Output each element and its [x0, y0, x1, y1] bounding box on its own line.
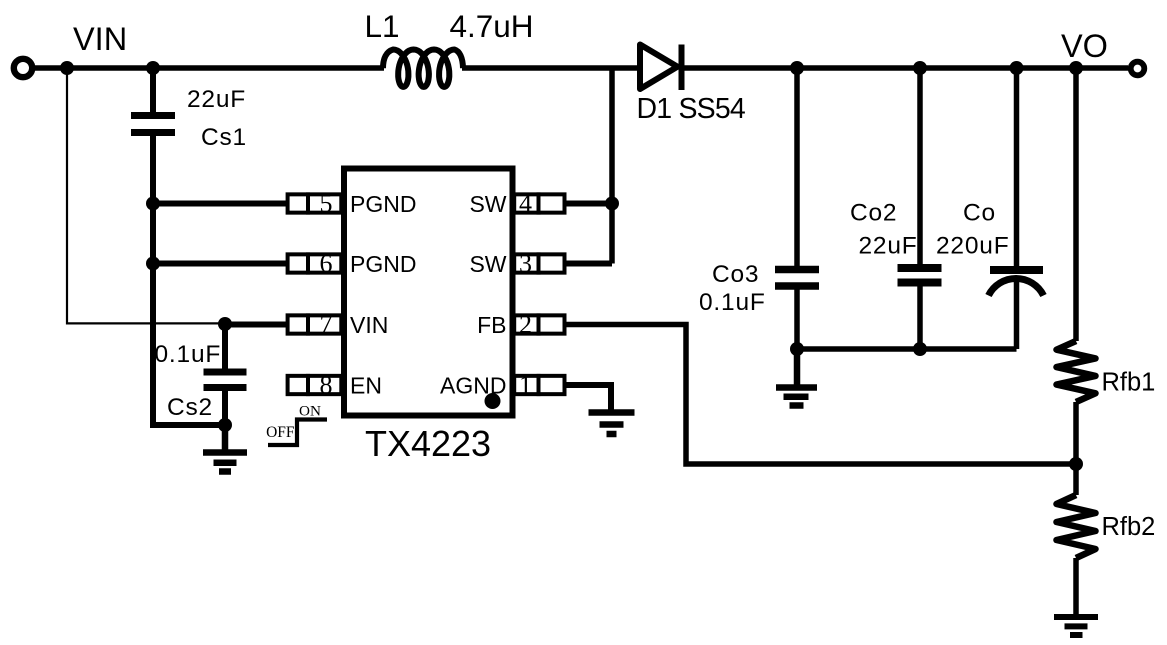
pin box 3	[514, 252, 564, 274]
ground below Rfb2	[1054, 617, 1098, 635]
wire top rail right (D1 to VO)	[684, 65, 1128, 71]
pin box 1	[514, 374, 564, 396]
svg-text:220uF: 220uF	[936, 233, 1009, 260]
pin1 marker dot	[485, 393, 501, 409]
junction SW node	[605, 197, 619, 211]
wire output ground rail	[797, 346, 1017, 352]
svg-text:4: 4	[519, 189, 532, 218]
svg-text:0.1uF: 0.1uF	[155, 341, 222, 368]
junction VO node	[1069, 61, 1083, 75]
svg-text:Co: Co	[963, 200, 996, 227]
wire Rfb1 to FB node	[1073, 402, 1079, 464]
pin box 7	[288, 313, 342, 335]
junction Cs1 top	[146, 61, 160, 75]
svg-text:Cs1: Cs1	[201, 124, 247, 151]
svg-text:Rfb1: Rfb1	[1102, 369, 1156, 397]
wire FB node to Rfb2	[1073, 464, 1079, 495]
wire VIN sense (thin) to pin7	[67, 68, 225, 323]
svg-text:OFF: OFF	[266, 424, 295, 441]
svg-text:SW: SW	[469, 251, 506, 277]
svg-text:4.7uH: 4.7uH	[450, 8, 534, 44]
capacitor Cs1	[131, 116, 175, 133]
wire SW pin4 to node	[567, 201, 613, 207]
resistor Rfb1	[1057, 341, 1096, 402]
junction pin5 branch	[146, 197, 160, 211]
wire SW node down from rail	[609, 68, 615, 264]
svg-text:TX4223: TX4223	[365, 423, 491, 464]
wire SW pin3 to node	[567, 261, 613, 267]
svg-text:0.1uF: 0.1uF	[699, 289, 766, 316]
ground below Cs2	[203, 425, 247, 472]
wire top rail left (VIN to L1)	[31, 65, 384, 71]
diode D1 cathode bar	[679, 45, 685, 91]
pin box 5	[288, 192, 342, 214]
svg-text:6: 6	[320, 249, 333, 278]
junction Co top	[1010, 61, 1024, 75]
capacitor Co2 top lead	[917, 68, 923, 264]
svg-text:VO: VO	[1061, 28, 1108, 64]
capacitor Co curved plate	[989, 278, 1044, 295]
wire VO to Rfb1	[1073, 68, 1079, 341]
junction FB node	[1069, 457, 1083, 471]
svg-text:VIN: VIN	[73, 21, 127, 57]
enable step waveform	[268, 420, 327, 446]
wire Rfb2 to ground	[1073, 558, 1079, 614]
svg-text:PGND: PGND	[350, 251, 416, 277]
svg-text:PGND: PGND	[350, 191, 416, 217]
node VO terminal	[1131, 62, 1145, 76]
svg-text:1: 1	[519, 371, 532, 400]
svg-text:3: 3	[519, 249, 532, 278]
node VIN terminal	[14, 59, 32, 77]
junction Co2 bottom	[913, 342, 927, 356]
capacitor Co top lead	[1014, 68, 1020, 270]
svg-text:7: 7	[320, 310, 333, 339]
ground AGND	[589, 413, 635, 435]
svg-text:22uF: 22uF	[859, 233, 918, 260]
svg-text:VIN: VIN	[350, 312, 388, 338]
svg-text:Rfb2: Rfb2	[1102, 513, 1156, 541]
svg-text:D1 SS54: D1 SS54	[637, 93, 746, 125]
wire AGND pin1 to ground	[567, 385, 612, 410]
diode D1	[640, 45, 678, 90]
wire to pin 6	[153, 261, 288, 267]
wire to pin 7	[225, 322, 288, 328]
svg-text:EN: EN	[350, 373, 382, 399]
resistor Rfb2	[1057, 495, 1096, 558]
capacitor Cs1 top lead	[150, 68, 156, 113]
svg-text:Cs2: Cs2	[167, 394, 213, 421]
pin box 2	[514, 313, 564, 335]
svg-text:Co3: Co3	[712, 261, 759, 288]
svg-text:Co2: Co2	[850, 200, 897, 227]
inductor L1	[383, 50, 463, 87]
junction Co3 top	[790, 61, 804, 75]
capacitor Co plus plate	[990, 266, 1043, 274]
capacitor Co bottom lead	[1014, 279, 1020, 349]
op-amp U1 TX4223 body	[344, 169, 513, 416]
svg-text:22uF: 22uF	[187, 86, 246, 113]
svg-text:ON: ON	[299, 402, 321, 419]
junction Cs2 bottom	[218, 418, 232, 432]
pin box 4	[514, 192, 564, 214]
capacitor Cs2	[204, 372, 247, 388]
junction pin7 node	[218, 317, 232, 331]
svg-text:L1: L1	[365, 8, 400, 44]
capacitor Co2	[898, 268, 942, 283]
svg-text:5: 5	[320, 189, 333, 218]
capacitor Cs2 top lead	[222, 324, 228, 369]
capacitor Co2 bottom lead	[917, 286, 923, 351]
capacitor Co3 bottom lead	[794, 290, 800, 352]
junction at VIN node	[60, 61, 74, 75]
svg-text:FB: FB	[477, 312, 506, 338]
wire top rail mid (L1 to D1)	[462, 65, 640, 71]
ground below Co3	[776, 349, 817, 406]
junction Co2 top	[913, 61, 927, 75]
capacitor Co3	[775, 270, 819, 287]
wire Cs1 bottom to Cs2 node	[153, 136, 225, 425]
svg-text:8: 8	[320, 371, 333, 400]
wire FB pin2 to divider	[567, 325, 1077, 465]
junction pin6 branch	[146, 257, 160, 271]
pin box 6	[288, 252, 342, 274]
capacitor Cs2 bottom lead	[222, 391, 228, 428]
pin box 8	[288, 374, 342, 396]
wire to pin 5	[153, 201, 288, 207]
svg-text:2: 2	[519, 310, 532, 339]
svg-text:SW: SW	[469, 191, 506, 217]
capacitor Co3 top lead	[794, 68, 800, 266]
junction Co3 bottom	[790, 342, 804, 356]
